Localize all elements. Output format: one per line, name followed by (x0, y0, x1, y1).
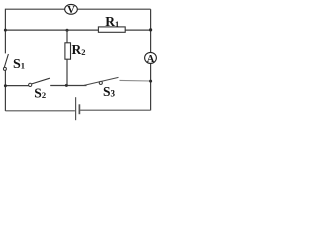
svg-text:R2: R2 (72, 42, 86, 57)
switch S1 (3, 54, 8, 70)
switch S3 (84, 77, 119, 85)
svg-text:S3: S3 (103, 84, 116, 99)
node dot R2 top (66, 29, 69, 32)
wire bottom right (80, 109, 151, 111)
wire bottom left (5, 110, 75, 112)
ammeter A (145, 52, 157, 65)
resistor R2 (65, 30, 71, 86)
svg-text:V: V (67, 5, 75, 16)
node dot S2 row left (4, 84, 7, 87)
node dot middle-left (4, 29, 7, 32)
resistor R1 (98, 27, 125, 32)
svg-text:R1: R1 (105, 14, 119, 29)
svg-text:S1: S1 (13, 57, 25, 72)
wire left lower (4, 70, 6, 111)
wire S3 right slanted (120, 79, 151, 82)
node dot R2 bottom (65, 84, 68, 87)
wire right vertical (150, 9, 152, 110)
svg-text:A: A (147, 54, 155, 65)
node dot S3 right (149, 80, 152, 83)
wire S2 row left (5, 85, 28, 87)
wire top (5, 8, 150, 10)
svg-text:S2: S2 (34, 85, 46, 100)
wire left upper (4, 9, 6, 54)
battery cell (76, 97, 80, 120)
switch S2 (29, 78, 50, 86)
wire middle horizontal (5, 29, 150, 31)
wire S2 row mid (50, 85, 86, 87)
voltmeter V (65, 4, 78, 16)
node dot middle-right (149, 28, 152, 31)
